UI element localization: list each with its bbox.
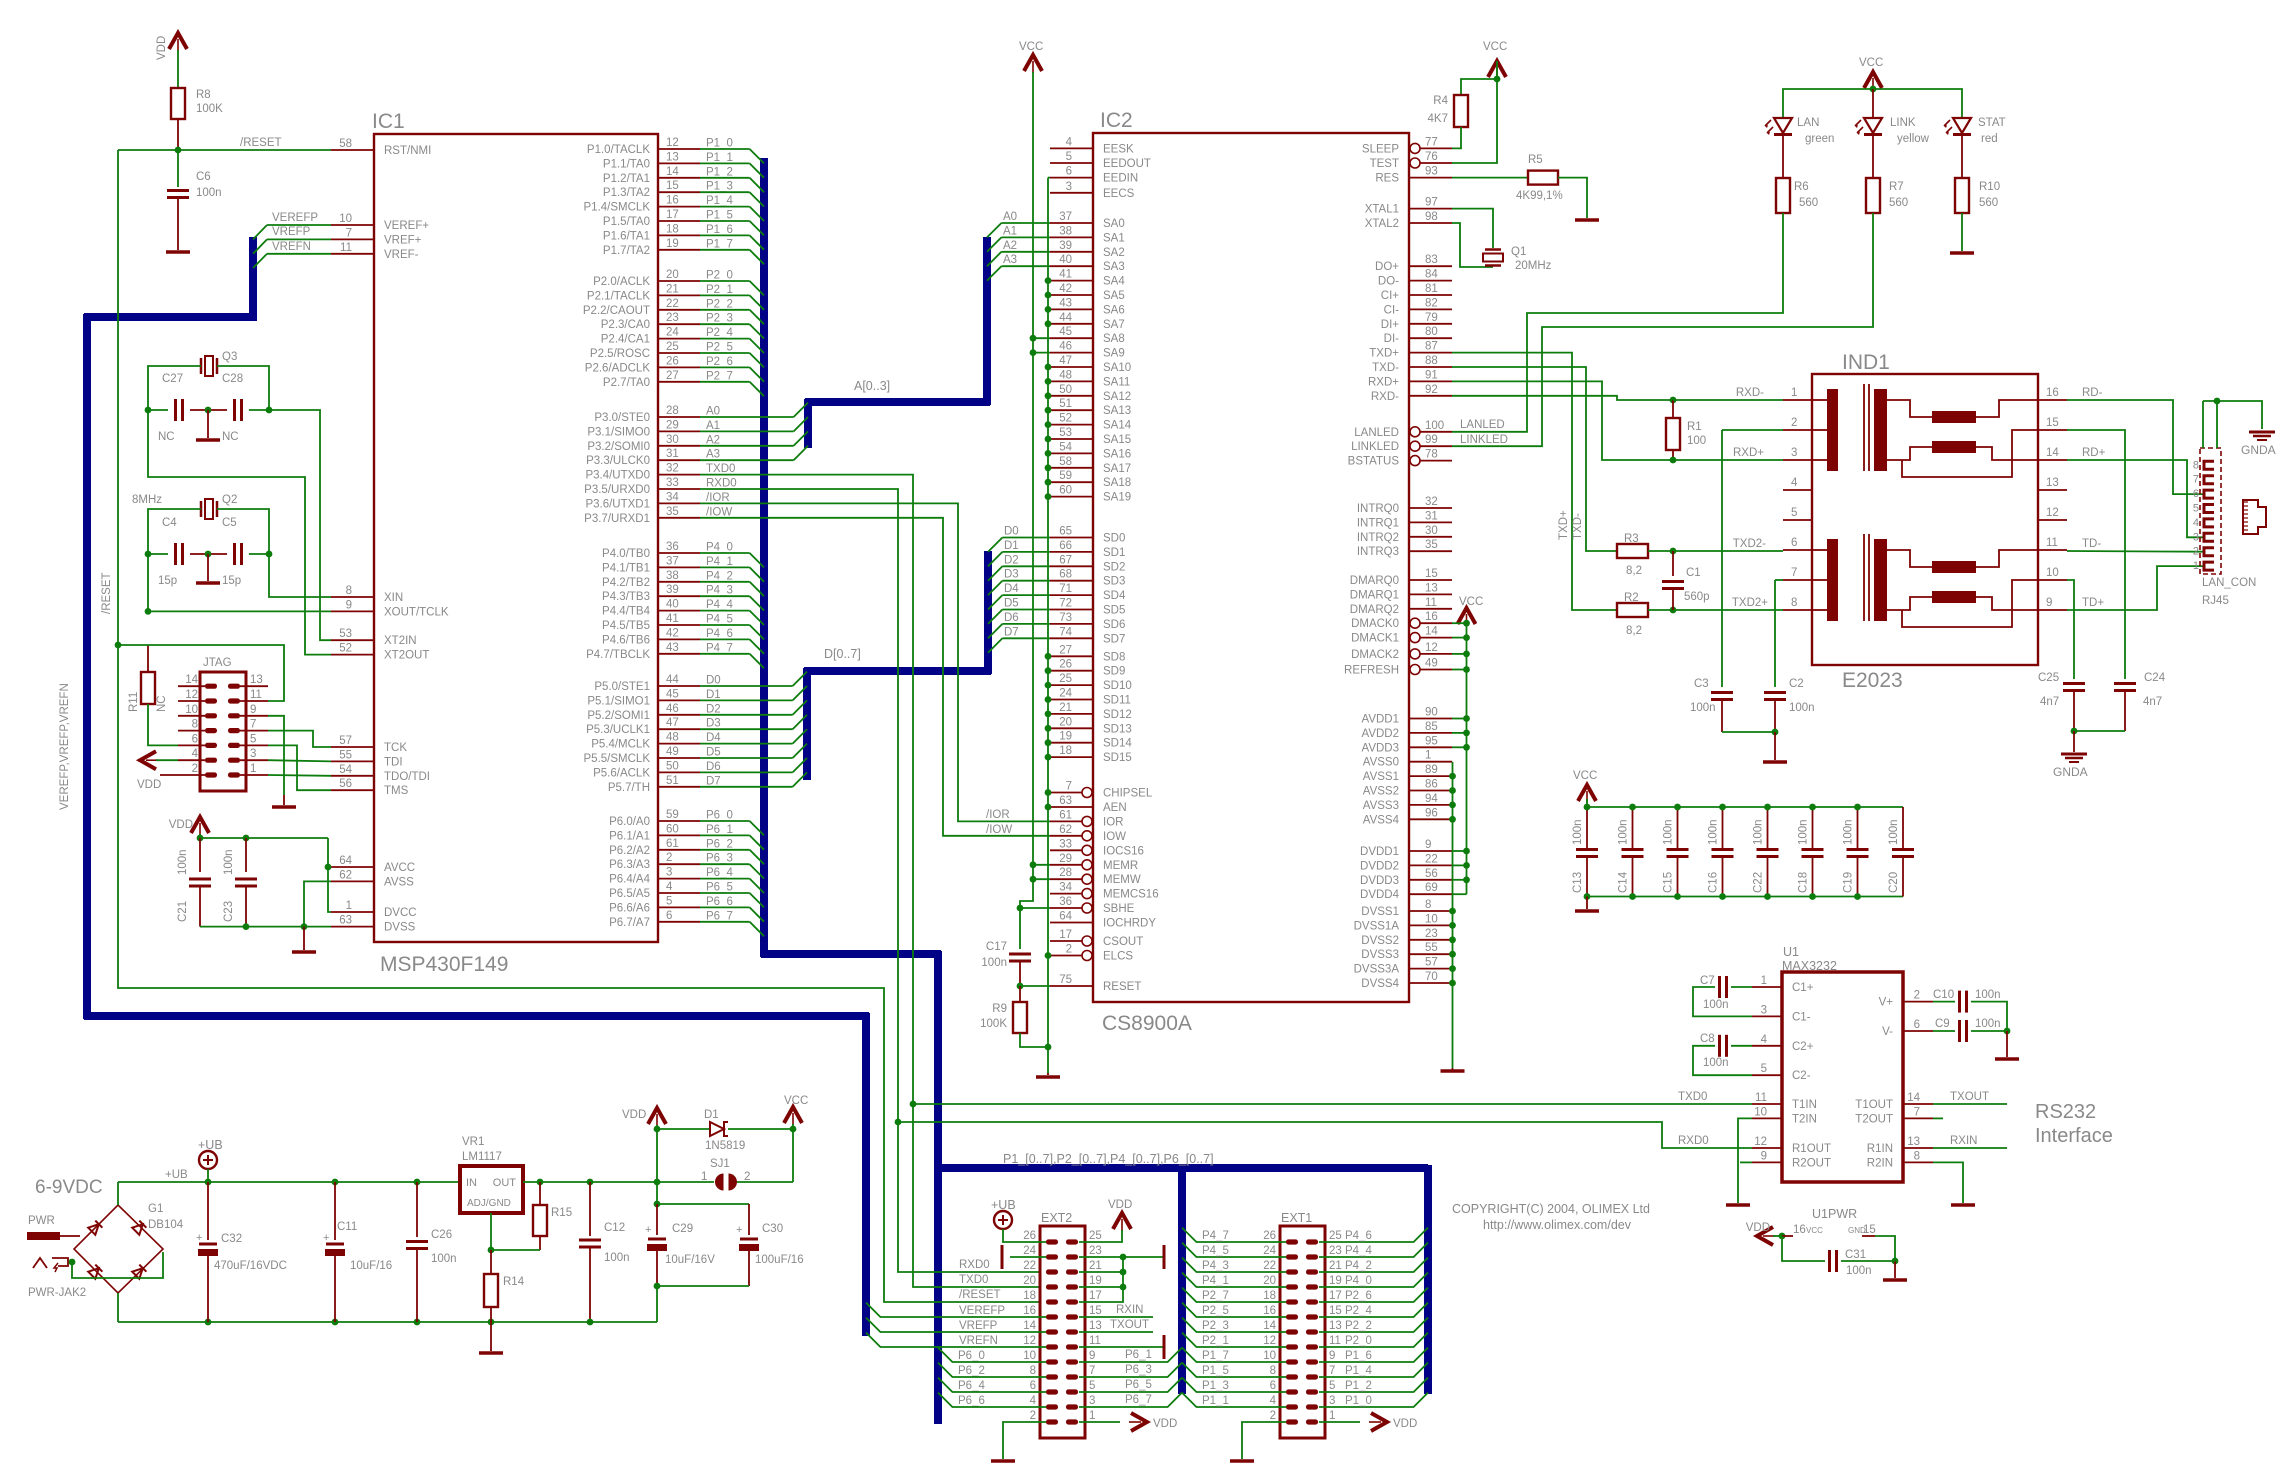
svg-text:3: 3 (250, 748, 256, 760)
wire JTAG pin 7 to TCK (268, 731, 331, 747)
svg-text:9: 9 (1329, 1350, 1335, 1362)
svg-text:R2IN: R2IN (1867, 1157, 1893, 1169)
wire TD+ from IND1 pin 9 to RJ45 (2067, 566, 2204, 610)
svg-text:RXD+: RXD+ (1368, 376, 1399, 388)
svg-text:23: 23 (1089, 1245, 1102, 1257)
svg-text:RXD-: RXD- (1371, 391, 1399, 403)
svg-text:22: 22 (666, 298, 679, 310)
svg-text:P2_1: P2_1 (1202, 1335, 1229, 1347)
svg-text:36: 36 (1059, 896, 1072, 908)
svg-text:P1_2: P1_2 (1345, 1380, 1372, 1392)
svg-text:EXT2: EXT2 (1041, 1211, 1072, 1225)
wire EEDIN to gnd rail (1048, 177, 1050, 179)
wire jack to bridge right corner (72, 1252, 163, 1278)
svg-text:2: 2 (1066, 944, 1072, 956)
svg-text:36: 36 (666, 541, 679, 553)
svg-text:6: 6 (1791, 537, 1797, 549)
svg-text:48: 48 (666, 732, 679, 744)
svg-text:P1_6: P1_6 (706, 224, 733, 236)
svg-text:DO-: DO- (1378, 276, 1399, 288)
svg-text:2: 2 (666, 852, 672, 864)
svg-text:SA4: SA4 (1103, 276, 1125, 288)
LED LAN green (1774, 118, 1792, 133)
svg-text:6: 6 (1270, 1380, 1276, 1392)
LED LINK yellow (1864, 118, 1882, 133)
wire /IOW from IC1 to IC2 (700, 518, 1050, 836)
node R9 gnd junction (1045, 1044, 1052, 1051)
svg-text:20MHz: 20MHz (1515, 260, 1552, 272)
svg-text:18: 18 (666, 223, 679, 235)
svg-text:28: 28 (1059, 867, 1072, 879)
svg-text:26: 26 (1023, 1230, 1036, 1242)
svg-text:VREF+: VREF+ (384, 234, 422, 246)
svg-text:A3: A3 (1003, 254, 1017, 266)
svg-text:IC2: IC2 (1100, 109, 1133, 132)
svg-text:NC: NC (156, 695, 168, 712)
node VCC R4 (1494, 76, 1501, 83)
bus P1,P2,P4,P6 main vertical right of IC1 (760, 158, 768, 957)
EXT2 pin 24 to gnd bar (1010, 1256, 1046, 1258)
svg-text:24: 24 (1059, 688, 1072, 700)
svg-text:MSP430F149: MSP430F149 (380, 953, 508, 976)
svg-text:R1IN: R1IN (1867, 1143, 1893, 1155)
svg-text:P5.0/STE1: P5.0/STE1 (594, 681, 650, 693)
svg-text:4n7: 4n7 (2040, 696, 2059, 708)
svg-text:SA5: SA5 (1103, 290, 1125, 302)
svg-text:P1_5: P1_5 (706, 210, 733, 222)
JTAG pads right column (228, 684, 240, 778)
svg-text:13: 13 (250, 674, 263, 686)
svg-text:EEDOUT: EEDOUT (1103, 158, 1151, 170)
svg-text:54: 54 (339, 764, 352, 776)
svg-text:P6.4/A4: P6.4/A4 (609, 874, 651, 886)
svg-text:10uF/16: 10uF/16 (350, 1260, 392, 1272)
svg-text:57: 57 (339, 735, 352, 747)
gnd bar at EXT2 pin 23 (1163, 1245, 1166, 1269)
svg-text:NC: NC (222, 431, 239, 443)
svg-text:98: 98 (1425, 211, 1438, 223)
U1PWR pin 15 GND (1862, 1235, 1875, 1237)
svg-text:P2.4/CA1: P2.4/CA1 (601, 334, 650, 346)
svg-text:8: 8 (1270, 1365, 1276, 1377)
power flag VDD at EXT2 pin 25 (1113, 1213, 1131, 1229)
svg-text:3: 3 (1761, 1004, 1767, 1016)
svg-text:P4_7: P4_7 (1202, 1230, 1229, 1242)
ground below R10 (1950, 251, 1974, 255)
svg-text:25: 25 (1089, 1230, 1102, 1242)
svg-text:R8: R8 (196, 89, 211, 101)
svg-text:11: 11 (1089, 1335, 1101, 1347)
EXT1 pin numbers (1263, 1230, 1342, 1422)
svg-text:3: 3 (2193, 531, 2199, 543)
JTAG left pin stubs and numbers (178, 674, 205, 775)
svg-text:SA3: SA3 (1103, 261, 1125, 273)
svg-text:LINK: LINK (1890, 117, 1916, 129)
svg-text:P1_1: P1_1 (1202, 1395, 1229, 1407)
svg-text:R1: R1 (1687, 421, 1702, 433)
svg-text:11: 11 (250, 689, 262, 701)
svg-text:21: 21 (1059, 702, 1072, 714)
svg-text:74: 74 (1059, 626, 1072, 638)
node VDD rail at C21 (197, 835, 204, 842)
svg-text:13: 13 (1329, 1320, 1342, 1332)
node AVCC junction (325, 864, 332, 871)
svg-text:46: 46 (666, 703, 679, 715)
svg-text:100uF/16: 100uF/16 (755, 1254, 804, 1266)
svg-text:P4.0/TB0: P4.0/TB0 (602, 548, 650, 560)
svg-text:P5.4/MCLK: P5.4/MCLK (591, 739, 650, 751)
svg-text:43: 43 (666, 642, 679, 654)
svg-text:19: 19 (666, 238, 679, 250)
svg-text:12: 12 (666, 137, 679, 149)
svg-text:SD12: SD12 (1103, 709, 1132, 721)
svg-text:P6_6: P6_6 (958, 1395, 985, 1407)
svg-text:8: 8 (2193, 459, 2199, 471)
node Q2 right junction (266, 551, 273, 558)
svg-text:P2.1/TACLK: P2.1/TACLK (587, 290, 650, 302)
wire TXD- from IC2 to R3 (1452, 367, 1617, 551)
svg-text:P2_6: P2_6 (1345, 1290, 1372, 1302)
wires D0-D7 from D bus to IC2 SD0-SD7 (988, 526, 1050, 653)
node VDD rail at C12 (587, 1179, 594, 1186)
wire VCC arrow to rail (1586, 799, 1588, 807)
voltage regulator VR1 body (460, 1166, 523, 1213)
svg-text:C11: C11 (337, 1221, 357, 1233)
svg-text:VCC: VCC (1573, 770, 1597, 782)
svg-text:VDD: VDD (1746, 1222, 1770, 1234)
svg-text:MEMCS16: MEMCS16 (1103, 889, 1159, 901)
svg-text:SD1: SD1 (1103, 547, 1125, 559)
wire LAN LED to R6 (1782, 135, 1784, 178)
svg-text:U1PWR: U1PWR (1812, 1207, 1857, 1221)
svg-text:4: 4 (1030, 1395, 1037, 1407)
svg-text:14: 14 (2046, 447, 2059, 459)
svg-text:100n: 100n (1846, 1265, 1872, 1277)
svg-text:SD9: SD9 (1103, 666, 1125, 678)
wire JTAG pin 5 to TMS (268, 745, 331, 790)
svg-text:D1: D1 (1004, 540, 1019, 552)
svg-text:AVDD1: AVDD1 (1362, 714, 1400, 726)
wire +UB circle to rail (207, 1169, 209, 1182)
svg-text:43: 43 (1059, 297, 1072, 309)
resistor R8 (171, 88, 185, 119)
bus P1,P2,P4,P6 horizontal above EXT connectors (938, 1164, 1428, 1172)
JTAG right pin stubs and numbers (240, 674, 268, 775)
svg-text:P2_5: P2_5 (1202, 1305, 1229, 1317)
svg-text:IC1: IC1 (372, 110, 405, 133)
wire P6_3 EXT2 pin 7 to bus (1079, 1363, 1182, 1377)
svg-text:10: 10 (1754, 1106, 1767, 1118)
svg-text:21: 21 (666, 283, 679, 295)
svg-text:A0: A0 (706, 406, 720, 418)
power arrow VDD right at EXT1 pin 1 (1371, 1413, 1387, 1431)
svg-text:/RESET: /RESET (959, 1289, 1001, 1301)
svg-text:7: 7 (2193, 474, 2199, 486)
svg-text:VCC: VCC (1483, 41, 1507, 53)
svg-text:52: 52 (1059, 413, 1072, 425)
svg-text:22: 22 (1425, 853, 1438, 865)
svg-text:DVSS4: DVSS4 (1361, 978, 1399, 990)
capacitor C31 (1782, 1236, 1825, 1261)
svg-text:8: 8 (1425, 899, 1431, 911)
svg-text:P3.3/ULCK0: P3.3/ULCK0 (586, 455, 650, 467)
svg-text:INTRQ1: INTRQ1 (1357, 517, 1399, 529)
svg-text:DVSS3A: DVSS3A (1354, 964, 1400, 976)
svg-text:25: 25 (666, 341, 679, 353)
transformer IND1 body (1812, 374, 2038, 665)
svg-text:P2.7/TA0: P2.7/TA0 (603, 377, 650, 389)
svg-text:13: 13 (1425, 582, 1438, 594)
svg-text:54: 54 (1059, 441, 1072, 453)
wire R5 to ground (1558, 178, 1587, 218)
svg-text:P1.6/TA1: P1.6/TA1 (603, 230, 650, 242)
svg-text:16: 16 (2046, 387, 2059, 399)
node Q2 left junction (145, 551, 152, 558)
svg-text:100n: 100n (1888, 819, 1900, 845)
bus A[0..3] horizontal (805, 398, 990, 406)
svg-text:TDO/TDI: TDO/TDI (384, 771, 430, 783)
capacitor C8 (1731, 1045, 1752, 1047)
svg-text:red: red (1981, 133, 1998, 145)
svg-text:TD+: TD+ (2082, 597, 2104, 609)
power flag VDD above D1 (648, 1108, 666, 1124)
svg-text:D6: D6 (706, 761, 721, 773)
svg-text:D3: D3 (1004, 569, 1019, 581)
svg-text:P1.4/SMCLK: P1.4/SMCLK (584, 202, 651, 214)
svg-text:7: 7 (1791, 567, 1797, 579)
svg-text:VCC: VCC (1806, 1226, 1823, 1235)
resistor R4 (1461, 79, 1497, 95)
wire RD- from IND1 pin 16 to RJ45 (2067, 400, 2204, 494)
svg-text:P2_3: P2_3 (706, 313, 733, 325)
wire /RESET vertical down left side (118, 150, 1046, 1302)
IC1 right pins with net labels (583, 137, 737, 929)
node gnd at C26 (414, 1319, 421, 1326)
wire P6_7 EXT2 pin 3 to bus (1079, 1393, 1182, 1407)
svg-text:29: 29 (666, 419, 679, 431)
svg-text:42: 42 (1059, 283, 1072, 295)
wire ground rail below caps to AVSS DVSS (200, 881, 331, 926)
node +UB at C32 (205, 1179, 212, 1186)
svg-text:INTRQ0: INTRQ0 (1357, 503, 1399, 515)
svg-text:D3: D3 (706, 718, 721, 730)
svg-text:100K: 100K (196, 103, 223, 115)
svg-text:1: 1 (1425, 750, 1431, 762)
svg-text:C30: C30 (762, 1223, 783, 1235)
crystal Q2 8MHz (200, 501, 203, 517)
svg-text:4K7: 4K7 (1428, 113, 1448, 125)
power flag VCC above R4 (1488, 61, 1506, 77)
svg-text:11: 11 (2046, 537, 2058, 549)
RJ45 pads and numbers (2193, 459, 2214, 572)
svg-text:P6_7: P6_7 (706, 910, 733, 922)
svg-text:CHIPSEL: CHIPSEL (1103, 788, 1153, 800)
ground below EXT2 (991, 1459, 1015, 1463)
svg-text:560: 560 (1799, 197, 1818, 209)
bus VEREFP,VREFP,VREFN bottom horizontal to EXT2 (84, 1012, 869, 1020)
svg-text:P1.7/TA2: P1.7/TA2 (603, 245, 650, 257)
svg-text:60: 60 (1059, 485, 1072, 497)
svg-text:ADJ/GND: ADJ/GND (467, 1198, 511, 1209)
svg-text:6: 6 (192, 733, 198, 745)
wire Q3 loop left (148, 366, 201, 410)
svg-text:P1.3/TA2: P1.3/TA2 (603, 187, 650, 199)
svg-text:8,2: 8,2 (1626, 565, 1642, 577)
svg-text:87: 87 (1425, 341, 1438, 353)
svg-text:560: 560 (1979, 197, 1998, 209)
svg-text:RXD+: RXD+ (1733, 447, 1764, 459)
gnd rail junction dots at SA4-SA7 SA10-SA19 SD8-SD15 CHIPSEL AEN ELCS (1045, 277, 1052, 959)
wire XTAL2 to crystal Q1 (1452, 223, 1493, 267)
svg-text:P1_3: P1_3 (1202, 1380, 1229, 1392)
svg-text:1: 1 (1791, 387, 1797, 399)
svg-text:73: 73 (1059, 612, 1072, 624)
ground below R5 (1575, 218, 1599, 222)
gnd bar at EXT2 pin 24 (1001, 1245, 1004, 1269)
wire VCC vertical into SA8 SA9 MEMR MEMW C17 (1020, 72, 1033, 949)
svg-text:SLEEP: SLEEP (1362, 143, 1399, 155)
svg-text:7: 7 (1066, 781, 1072, 793)
svg-text:http://www.olimex.com/dev: http://www.olimex.com/dev (1483, 1218, 1632, 1232)
svg-text:DVCC: DVCC (384, 907, 417, 919)
wires D0-D7 into D bus (700, 672, 807, 787)
junction dots on decoupling rails (1584, 804, 1861, 900)
svg-text:67: 67 (1059, 554, 1072, 566)
svg-text:P3.5/URXD0: P3.5/URXD0 (584, 484, 650, 496)
EXT2 pin numbers (1023, 1230, 1102, 1422)
ground below C2 C3 (1763, 760, 1787, 764)
svg-text:4: 4 (192, 748, 199, 760)
svg-text:100n: 100n (196, 187, 222, 199)
svg-text:P1_7: P1_7 (1202, 1350, 1229, 1362)
wire center caps to ground (207, 554, 209, 581)
svg-text:P1.5/TA0: P1.5/TA0 (603, 216, 650, 228)
wire R3 to TXD2- and IND1 pin 6 (1648, 550, 1783, 552)
svg-text:3: 3 (1066, 181, 1072, 193)
svg-text:C2+: C2+ (1792, 1041, 1814, 1053)
svg-text:P3.1/SIMO0: P3.1/SIMO0 (587, 426, 650, 438)
node gnd rail at C23 (243, 923, 250, 930)
svg-text:D6: D6 (1004, 612, 1019, 624)
svg-text:TXD-: TXD- (1572, 513, 1584, 540)
svg-text:22: 22 (1023, 1260, 1036, 1272)
power flag VDD top-left (169, 33, 187, 49)
svg-text:21: 21 (1089, 1260, 1102, 1272)
svg-text:69: 69 (1425, 882, 1438, 894)
svg-text:1: 1 (701, 1171, 707, 1183)
svg-text:VCC: VCC (1859, 57, 1883, 69)
wire Q2 right to XIN pin 8 (269, 554, 331, 597)
gnd bar at EXT2 pin 11 (1163, 1335, 1166, 1359)
svg-text:R7: R7 (1889, 181, 1904, 193)
svg-text:SA13: SA13 (1103, 405, 1131, 417)
svg-text:D0: D0 (706, 675, 721, 687)
capacitor C21 (199, 838, 201, 872)
svg-text:P4_6: P4_6 (706, 628, 733, 640)
svg-text:P2_2: P2_2 (1345, 1320, 1372, 1332)
capacitor C32 electrolytic (207, 1182, 209, 1240)
svg-text:6: 6 (2193, 488, 2199, 500)
wire C17 bottom to RESET (1019, 961, 1021, 986)
svg-text:TDI: TDI (384, 756, 403, 768)
wire T1OUT to TXOUT (1933, 1103, 2007, 1105)
wire EXT2 pin 15 RXIN (1079, 1316, 1153, 1318)
node Q3 right junction (266, 407, 273, 414)
svg-text:6: 6 (666, 910, 672, 922)
svg-text:15: 15 (666, 180, 679, 192)
svg-text:R11: R11 (128, 692, 140, 712)
svg-text:AVSS4: AVSS4 (1363, 814, 1400, 826)
wire C9 C10 to ground (2006, 1031, 2008, 1057)
wire SJ1 to VCC riser (737, 1181, 793, 1183)
U1 left pins (1752, 975, 1831, 1169)
svg-text:P2.2/CAOUT: P2.2/CAOUT (583, 305, 650, 317)
svg-text:P6_4: P6_4 (706, 867, 733, 879)
decoupling capacitors C13 C14 C15 C16 C22 C18 C19 C20 (1572, 807, 1914, 897)
svg-text:+: + (323, 1232, 329, 1244)
svg-text:4K99,1%: 4K99,1% (1516, 190, 1563, 202)
wire pin15 to gnd (1875, 1236, 1895, 1261)
svg-text:RXD0: RXD0 (1678, 1135, 1709, 1147)
svg-text:T2OUT: T2OUT (1855, 1113, 1893, 1125)
svg-text:2: 2 (1914, 990, 1920, 1002)
resistor R7 (1866, 178, 1880, 213)
svg-text:R1OUT: R1OUT (1792, 1143, 1831, 1155)
svg-text:5: 5 (1761, 1063, 1767, 1075)
bus P1,P2,P4,P6 horizontal jog (761, 950, 941, 958)
svg-text:P6.6/A6: P6.6/A6 (609, 902, 650, 914)
svg-text:PWR: PWR (28, 1215, 55, 1227)
svg-text:11: 11 (340, 242, 352, 254)
svg-text:green: green (1805, 133, 1834, 145)
IC IC1 MSP430F149 body (374, 134, 658, 942)
svg-text:SD11: SD11 (1103, 695, 1131, 707)
svg-text:IOCHRDY: IOCHRDY (1103, 918, 1156, 930)
svg-text:25: 25 (1059, 673, 1072, 685)
capacitor C11 electrolytic (334, 1182, 336, 1240)
svg-text:57: 57 (1425, 957, 1438, 969)
svg-text:P3.7/URXD1: P3.7/URXD1 (584, 513, 650, 525)
svg-text:17: 17 (1059, 929, 1072, 941)
svg-text:SA17: SA17 (1103, 463, 1131, 475)
wires AVDD1-3 DVDD1-3 to VCC rail (1452, 715, 1470, 883)
svg-text:62: 62 (339, 869, 352, 881)
wire JTAG pin 9 to ground (268, 716, 284, 795)
svg-text:8: 8 (192, 719, 198, 731)
svg-text:C13: C13 (1572, 872, 1584, 893)
svg-text:P5.7/TH: P5.7/TH (608, 782, 650, 794)
svg-text:2: 2 (2193, 546, 2199, 558)
svg-text:P5.3/UCLK1: P5.3/UCLK1 (586, 724, 650, 736)
svg-text:P2_4: P2_4 (706, 327, 733, 339)
svg-text:49: 49 (666, 746, 679, 758)
svg-text:100n: 100n (1975, 1018, 2001, 1030)
svg-text:86: 86 (1425, 779, 1438, 791)
svg-text:26: 26 (1059, 659, 1072, 671)
svg-text:IOW: IOW (1103, 831, 1126, 843)
svg-text:TXD0: TXD0 (959, 1274, 988, 1286)
svg-text:8: 8 (1791, 597, 1797, 609)
LED STAT red (1953, 118, 1971, 133)
svg-text:R15: R15 (551, 1207, 572, 1219)
svg-text:55: 55 (1425, 942, 1438, 954)
svg-text:13: 13 (666, 151, 679, 163)
wire P6_5 EXT2 pin 5 to bus (1079, 1378, 1182, 1392)
power flag VDD above C21 (191, 817, 209, 833)
svg-text:AVSS3: AVSS3 (1363, 800, 1399, 812)
svg-text:P3.6/UTXD1: P3.6/UTXD1 (585, 498, 650, 510)
svg-text:EESK: EESK (1103, 143, 1134, 155)
